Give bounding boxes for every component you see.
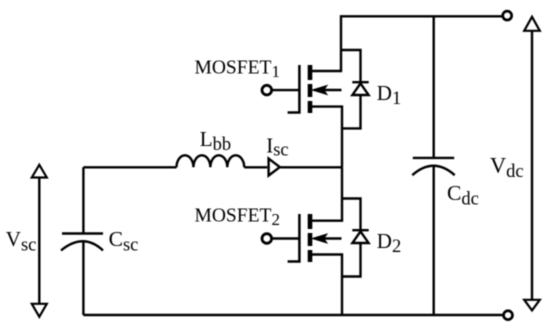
- svg-text:Lbb: Lbb: [200, 127, 231, 155]
- svg-text:D2: D2: [377, 229, 401, 257]
- svg-text:MOSFET2: MOSFET2: [195, 205, 280, 229]
- svg-text:Csc: Csc: [109, 227, 139, 256]
- svg-text:Isc: Isc: [266, 133, 288, 160]
- svg-text:MOSFET1: MOSFET1: [195, 57, 280, 81]
- svg-text:Vdc: Vdc: [490, 152, 524, 182]
- svg-text:D1: D1: [377, 81, 401, 109]
- svg-text:Vsc: Vsc: [6, 227, 37, 256]
- svg-text:Cdc: Cdc: [447, 181, 479, 210]
